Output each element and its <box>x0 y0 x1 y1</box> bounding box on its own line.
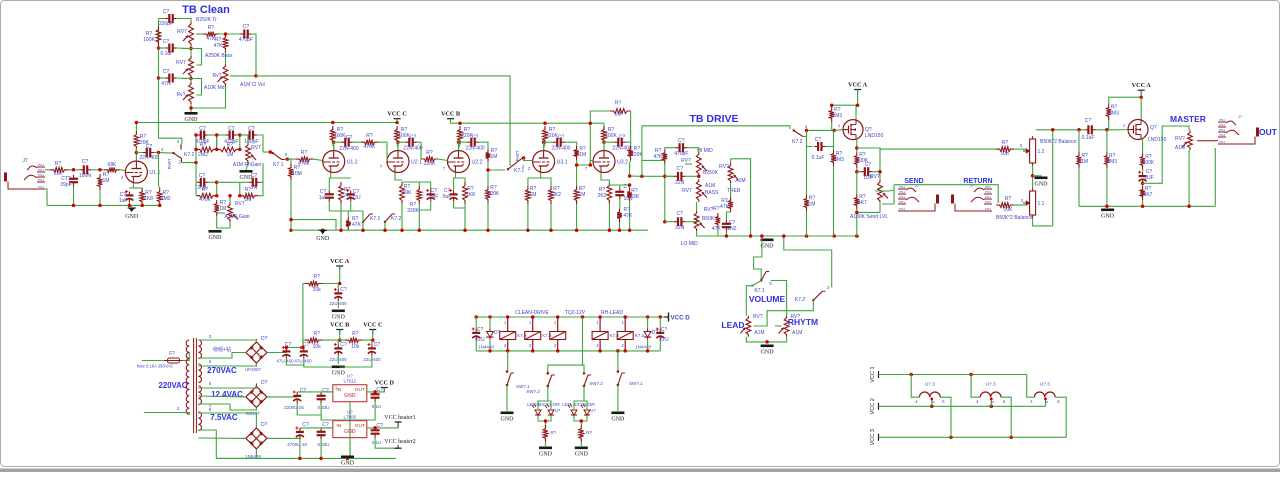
svg-text:Rv?: Rv? <box>213 73 222 79</box>
resistor R? 10k c <box>345 338 362 343</box>
junction main rail <box>321 228 631 232</box>
svg-text:47K: 47K <box>624 213 634 219</box>
potentiometer RV? A1M Cl Vol <box>218 64 228 86</box>
svg-text:1N4448: 1N4448 <box>478 345 494 350</box>
junction vcc2 <box>930 405 993 409</box>
svg-text:A1M: A1M <box>792 330 802 336</box>
switch SW?.2 a <box>547 375 555 387</box>
wire 10k c out <box>362 339 373 341</box>
svg-text:U2.1: U2.1 <box>411 160 422 166</box>
svg-text:470pF: 470pF <box>239 37 253 43</box>
resistor R? 470K to grid <box>296 157 313 162</box>
capacitor C? 22N drv2 <box>674 217 685 226</box>
wire 22ua <box>337 284 339 290</box>
power VCC 1 bar <box>878 371 880 378</box>
wire out tap <box>1143 126 1190 183</box>
junction master gate line <box>1051 128 1081 132</box>
svg-text:3M3: 3M3 <box>832 113 842 119</box>
potentiometer RV7 A1M RhGain <box>246 143 256 163</box>
capacitor C? 22N drv1 <box>674 172 685 181</box>
wire 1M m d <box>1078 168 1080 206</box>
svg-text:2200U-25: 2200U-25 <box>284 405 304 410</box>
svg-text:22N-400: 22N-400 <box>551 146 570 152</box>
capacitor C? 0.33U psu <box>317 392 326 403</box>
svg-text:C?: C? <box>228 126 235 132</box>
wire tb drive run <box>642 126 790 129</box>
potentiometer fader 1.2 <box>1023 136 1036 166</box>
wire k72 to gate <box>803 130 834 136</box>
svg-text:100K: 100K <box>1143 160 1155 166</box>
svg-text:F?: F? <box>169 351 175 357</box>
capacitor C? 22U-400 c <box>367 343 376 356</box>
junction m gate <box>1105 128 1109 132</box>
svg-text:TB DRIVE: TB DRIVE <box>689 113 738 125</box>
svg-text:J7: J7 <box>22 158 28 164</box>
wire 4k7 d <box>856 209 858 236</box>
capacitor C? 0.1uF master <box>1084 125 1095 134</box>
wire R1M down <box>99 190 101 205</box>
svg-text:R?: R? <box>55 161 62 167</box>
wire u21 loop <box>402 182 431 190</box>
wire vcc3 rail <box>879 436 1067 438</box>
svg-text:K7.3: K7.3 <box>635 333 645 338</box>
junction k71 in <box>269 150 273 154</box>
capacitor C? 0.33U b <box>317 428 326 439</box>
wire sec2 to b1 bot <box>198 363 256 366</box>
diode D? 1N4448 left <box>487 329 494 341</box>
svg-text:PN1: PN1 <box>38 168 44 172</box>
wire bass wiper loop <box>182 49 202 66</box>
svg-text:GND: GND <box>1101 214 1115 220</box>
svg-text:2M2: 2M2 <box>198 152 208 158</box>
resistor R? 10k b <box>305 338 322 343</box>
wire drv c22b <box>665 221 674 223</box>
resistor R? 3M3 up <box>829 107 834 122</box>
junction treble out <box>224 32 228 36</box>
svg-text:GND: GND <box>611 417 625 423</box>
svg-text:PN1: PN1 <box>38 178 44 182</box>
wire U2.2 cap out <box>479 142 489 149</box>
capacitor C? 5uF U2.2 <box>449 189 458 202</box>
resistor R? 4K7 m <box>1140 186 1145 200</box>
svg-text:100K: 100K <box>488 191 500 197</box>
wire vol feed2 <box>784 236 832 287</box>
svg-text:VCC A: VCC A <box>330 258 350 265</box>
capacitor C? 470pF rh1 <box>197 131 208 140</box>
wire drv himid2 <box>687 148 699 152</box>
wire 10k a2 <box>322 283 340 285</box>
wire heater 1 right <box>940 397 951 437</box>
junction input node1 <box>72 168 76 172</box>
capacitor C? 5uF U2.1 <box>426 189 435 202</box>
wire heater 1 mid <box>931 397 933 406</box>
wire b3 left <box>198 437 246 439</box>
wire rh pair 2 <box>216 135 218 149</box>
wire sw3 feed <box>583 365 585 373</box>
heater winding U?.3 1 <box>919 392 940 397</box>
svg-text:0.1U: 0.1U <box>372 440 382 445</box>
svg-text:220K: 220K <box>424 161 436 167</box>
wire cap01 right <box>825 147 833 151</box>
svg-text:fuse 0.16A 250VAC: fuse 0.16A 250VAC <box>137 364 173 369</box>
svg-text:5uF: 5uF <box>430 194 439 200</box>
svg-text:D?: D? <box>261 336 268 342</box>
potentiometer RV? A1M TREB <box>728 164 738 184</box>
wire to U1.2 grid <box>313 159 323 160</box>
wire plate node <box>136 148 143 153</box>
wire lgain top <box>229 196 231 203</box>
svg-text:OUT: OUT <box>355 423 365 429</box>
switch K7.2 input <box>180 145 182 150</box>
switch K7.1 cath1 <box>362 214 373 223</box>
svg-text:C?: C? <box>302 422 309 428</box>
wire 22uc <box>371 340 373 344</box>
resistor R? 39K U2.1 <box>400 182 405 204</box>
svg-text:VCC heater1: VCC heater1 <box>384 415 416 421</box>
junction B+ rail <box>135 121 399 125</box>
wire sec4 to b3 <box>198 413 256 428</box>
wire u12 c down <box>328 202 330 211</box>
resistor R? 47K cath <box>346 217 351 230</box>
svg-text:C?: C? <box>676 166 683 172</box>
wire treb chain2 <box>726 212 730 220</box>
wire reg1 gnd <box>349 402 351 459</box>
wire b2 filter <box>297 391 321 393</box>
svg-text:GND: GND <box>761 350 775 356</box>
capacitor C? 0.1U r1 <box>371 390 380 401</box>
relay K7.3 coil 5 <box>617 332 633 340</box>
wire fader gnd <box>1033 175 1041 178</box>
junction rail input <box>72 204 162 208</box>
wire b2 left <box>198 395 246 398</box>
wire u31c2 <box>527 204 529 230</box>
resistor R? 1M lg down <box>214 200 219 216</box>
svg-text:R?: R? <box>586 430 592 435</box>
svg-text:10K: 10K <box>1001 151 1011 157</box>
svg-text:39K: 39K <box>403 190 413 196</box>
ground volume <box>761 345 775 356</box>
svg-text:U3.1: U3.1 <box>557 160 568 166</box>
potentiometer fader 1.1 <box>1023 188 1036 218</box>
wire gate m <box>1117 129 1128 131</box>
wire pot bottom <box>857 202 880 212</box>
wire send pot drop <box>879 149 881 180</box>
wire drv pots bottom <box>697 231 713 236</box>
resistor R? 47K mid <box>223 34 228 52</box>
wire relay bottom rail <box>476 350 660 352</box>
relay K7.3 coil 3 <box>550 332 566 340</box>
wire 47U rail up <box>302 284 304 348</box>
svg-text:0.1U: 0.1U <box>372 404 382 409</box>
capacitor C? 47U-450 b <box>299 346 308 359</box>
wire 22K to node <box>68 169 80 171</box>
svg-text:PN1: PN1 <box>985 200 991 204</box>
switch SW?.2 b dots <box>583 372 586 375</box>
wire treble wiper <box>196 33 203 35</box>
svg-text:PN1: PN1 <box>38 163 44 167</box>
wire heater 3 mid <box>1045 397 1047 406</box>
svg-text:3M3: 3M3 <box>1109 111 1119 117</box>
resistor R? 47K u32 <box>617 209 622 222</box>
resistor R? 10K send <box>996 147 1014 152</box>
triode U1.2 <box>323 151 358 173</box>
wire lg mid to pair2 <box>217 181 249 183</box>
wire U1.2 cathode <box>331 173 341 179</box>
resistor R? 1M U3.1c <box>526 186 531 204</box>
wire lgain wiper <box>217 212 225 214</box>
wire 22ua d <box>337 301 339 308</box>
capacitor C? 470pF drv <box>676 143 687 152</box>
wire pot m d <box>1188 150 1190 206</box>
junction K7.2 in <box>157 151 161 155</box>
wire rh pair b 1 <box>216 135 218 149</box>
junction drv rail <box>663 175 667 224</box>
svg-text:C?: C? <box>472 135 479 141</box>
LED bicolor 1b <box>545 404 554 415</box>
capacitor C? 0.1uf <box>165 44 176 53</box>
wire sw2 feed <box>548 365 583 373</box>
wire heater 2 left <box>971 375 980 398</box>
wire b3 filter <box>300 427 333 429</box>
wire rh pair top2 1 <box>208 134 217 136</box>
wire 47K top <box>347 211 349 217</box>
capacitor C? 22N-400 U3.1 <box>553 138 564 147</box>
wire u31 2k2 <box>541 178 551 186</box>
wire cap47N to mid <box>176 77 191 80</box>
svg-text:270VAC: 270VAC <box>207 366 237 375</box>
junction U3.1 grid <box>522 156 526 160</box>
svg-text:R?: R? <box>200 142 207 148</box>
wire 10k b out <box>322 339 340 341</box>
resistor R? 3M3 m1 <box>1106 104 1111 120</box>
resistor R? 220K plate U2.2 <box>458 126 463 144</box>
junction led2 <box>580 419 584 423</box>
wire sw4 gnd <box>617 385 619 411</box>
wire U2.2 plate node <box>459 142 468 150</box>
relay K7.3 coil 2 <box>525 332 541 340</box>
svg-text:U?.3: U?.3 <box>986 382 996 388</box>
svg-text:D?: D? <box>261 380 268 386</box>
wire treb top <box>731 159 751 236</box>
wire lg right up <box>262 163 264 182</box>
svg-text:470K: 470K <box>199 197 211 203</box>
svg-text:0.1uF: 0.1uF <box>1082 135 1095 141</box>
power VCC 3 bar <box>878 434 880 441</box>
wire send wiper <box>875 190 894 191</box>
wire clvol wiper to node <box>230 75 256 77</box>
resistor R? 470K U2.1grid <box>361 140 378 145</box>
svg-text:VCC A: VCC A <box>1132 82 1152 89</box>
wire 3m3 low vert <box>833 130 835 150</box>
svg-text:R?: R? <box>551 430 557 435</box>
switch SW?.1 right dots <box>617 370 620 373</box>
wire U1.1 plate up <box>135 148 137 161</box>
triode U3.1 <box>533 151 568 173</box>
ground drive <box>761 239 775 250</box>
resistor R? 1K8 U1.1 <box>140 188 145 205</box>
svg-text:0.33U: 0.33U <box>317 405 329 410</box>
transformer core <box>193 338 195 433</box>
svg-text:C?: C? <box>410 135 417 141</box>
resistor R? 3M3 low <box>831 150 836 166</box>
wire tq2 feed <box>582 317 584 365</box>
junction out node <box>1141 182 1145 186</box>
svg-text:C?: C? <box>163 69 170 75</box>
svg-text:HI MID: HI MID <box>697 148 713 154</box>
wire cathode split <box>129 187 142 189</box>
resistor R? 100K plate U1.2 <box>330 126 335 144</box>
potentiometer RV? B50K drv <box>694 211 704 231</box>
triode U2.2 <box>448 151 483 173</box>
svg-text:GND: GND <box>1035 182 1049 188</box>
wire u12 cath top <box>329 178 350 190</box>
junction led1 <box>544 419 548 423</box>
svg-text:6: 6 <box>991 401 995 403</box>
svg-text:OUT: OUT <box>1259 127 1278 137</box>
wire mid bottom <box>190 104 192 112</box>
svg-text:A1M: A1M <box>705 183 715 189</box>
resistor R? 68K grid <box>104 167 120 172</box>
resistor R? 220K U2.2grid <box>421 157 438 162</box>
wire rh pair 1 <box>195 135 197 149</box>
ground main <box>316 230 330 242</box>
wire b1 left <box>198 353 246 359</box>
svg-text:C?: C? <box>163 39 170 45</box>
svg-text:C?: C? <box>322 422 329 428</box>
svg-text:1M: 1M <box>227 152 234 158</box>
svg-text:R?: R? <box>426 150 433 156</box>
junction vcca node <box>338 282 342 286</box>
LED bicolor 2a <box>568 404 577 415</box>
svg-text:RV7: RV7 <box>251 145 261 151</box>
svg-text:12.4VAC: 12.4VAC <box>211 390 243 399</box>
wire rail cap3 <box>159 77 166 79</box>
wire tonestack left rail <box>158 19 160 123</box>
svg-text:C?: C? <box>815 137 822 143</box>
wire div <box>487 170 489 186</box>
wire drv c22b2 <box>685 218 696 222</box>
capacitor C? 470pF out <box>240 30 251 39</box>
svg-text:IN: IN <box>336 387 341 393</box>
power VCC C psu <box>363 322 382 335</box>
triode U3.2 <box>593 151 628 173</box>
potentiometer RV? A1M RHYTM <box>779 316 789 337</box>
resistor R? 100K src <box>854 152 859 168</box>
ground led1 <box>539 447 553 458</box>
svg-text:PN1: PN1 <box>38 185 44 189</box>
transistor Q? LND150 master <box>1128 120 1148 140</box>
svg-text:U?: U? <box>555 408 561 413</box>
svg-text:PN1: PN1 <box>1219 128 1225 132</box>
wire dl up <box>489 317 491 329</box>
switch K7.2 volume <box>812 291 825 301</box>
wire mains N <box>144 413 189 415</box>
svg-text:39pF: 39pF <box>60 182 71 188</box>
wire psu bottom rail <box>216 457 395 459</box>
wire drive stack entry <box>642 159 664 161</box>
wire rh pair b 2 <box>239 135 241 149</box>
svg-text:C?: C? <box>340 287 347 293</box>
wire vcca m <box>1109 90 1142 104</box>
wire drive stack vert <box>641 126 643 177</box>
svg-text:47K: 47K <box>712 226 722 232</box>
svg-text:R?: R? <box>301 150 308 156</box>
svg-text:R?: R? <box>245 187 252 193</box>
svg-text:C?: C? <box>248 126 255 132</box>
wire send run <box>880 148 998 150</box>
svg-text:GND: GND <box>316 236 330 242</box>
wire pots bottom <box>746 337 786 342</box>
potentiometer RV7 B250K drv <box>696 152 706 176</box>
potentiometer Rv? A10K Mid <box>183 82 193 104</box>
svg-text:Rv?: Rv? <box>177 92 186 98</box>
transformer secondary 2 <box>198 364 201 383</box>
junction vcca <box>830 103 859 107</box>
wire VCCC stem <box>396 119 398 123</box>
capacitor C? lg2 <box>249 178 260 187</box>
wire out sleeve <box>1214 148 1216 206</box>
svg-text:A1M: A1M <box>754 330 764 336</box>
svg-text:GND: GND <box>344 393 356 399</box>
junction pots gnd <box>765 340 769 344</box>
svg-text:1uF: 1uF <box>319 195 328 201</box>
junction src cap <box>855 170 859 174</box>
junction 4k7 pot <box>855 211 859 215</box>
jack J7 input <box>4 163 45 189</box>
switch K7.1 gain <box>272 152 285 160</box>
wire U3.2 plate node <box>604 142 615 150</box>
wire 3m3 m2 <box>1106 130 1108 152</box>
svg-text:C?: C? <box>163 9 170 15</box>
wire u21 loop4 <box>418 210 420 230</box>
wire u21 loop3 <box>419 202 430 210</box>
capacitor C? 22U-400 b <box>334 343 343 356</box>
junction heater mid 1 <box>930 398 933 401</box>
resistor R? 1M master <box>1077 152 1082 168</box>
wire sw1 gnd <box>506 385 508 411</box>
rectifier D? UF4007 <box>243 339 270 366</box>
svg-text:C?: C? <box>678 138 685 144</box>
wire reg2 in <box>321 427 333 429</box>
svg-text:1uF: 1uF <box>119 198 128 204</box>
wire plate U3.1 <box>544 144 545 151</box>
svg-text:2N2: 2N2 <box>727 226 736 232</box>
wire rh3 b <box>257 135 264 152</box>
svg-text:K7.1: K7.1 <box>370 216 381 222</box>
svg-text:A1M LGain: A1M LGain <box>224 214 249 220</box>
wire relay 3 pins <box>557 317 559 332</box>
svg-text:RV?: RV? <box>753 314 763 320</box>
wire cap to pot <box>872 171 880 173</box>
wire led1 feed <box>538 386 548 409</box>
resistor R? 10k a <box>305 281 322 286</box>
resistor R? led1 <box>543 425 548 442</box>
wire drv bottom rail <box>713 235 859 237</box>
wire drv 47k2 bot <box>717 228 719 236</box>
wire relay top rail <box>476 316 664 318</box>
svg-text:100K: 100K <box>143 37 155 43</box>
svg-text:330K: 330K <box>407 208 419 214</box>
junction vccb node <box>338 338 342 342</box>
svg-text:K7.2: K7.2 <box>184 152 195 158</box>
wire grid to tube <box>120 169 126 172</box>
wire U2.1 cap out <box>417 142 422 159</box>
resistor R? 1M input <box>98 174 103 190</box>
svg-text:RH-LEAD: RH-LEAD <box>601 310 623 316</box>
wire 3m3 low down <box>833 166 835 236</box>
svg-text:PART: PART <box>515 150 520 161</box>
svg-text:GND: GND <box>332 371 346 377</box>
